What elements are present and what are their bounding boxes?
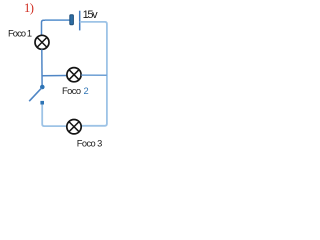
label 1) — [24, 1, 34, 15]
lamp U2 Foco 2 — [67, 68, 81, 82]
svg-text:Foco 3: Foco 3 — [77, 139, 103, 149]
svg-text:15v: 15v — [83, 9, 99, 21]
svg-text:1): 1) — [24, 1, 34, 15]
label Foco 3 — [77, 139, 103, 149]
lamp U3 Foco 3 — [67, 120, 81, 134]
label Foco 1 — [8, 29, 32, 39]
label 15v — [83, 9, 99, 21]
battery B1 short plate — [70, 15, 74, 25]
switch S1 lower contact — [40, 101, 44, 105]
svg-text:Foco: Foco — [62, 86, 81, 96]
switch S1 lever — [29, 88, 41, 101]
switch S1 junction dot — [40, 85, 45, 90]
wire left rail lamp1 to switch junction — [41, 49, 43, 85]
svg-text:2: 2 — [84, 86, 89, 96]
lamp U1 Foco 1 — [35, 35, 49, 49]
wire top-left from node A down-left corner to battery — [42, 20, 70, 35]
svg-text:Foco 1: Foco 1 — [8, 29, 32, 39]
wire from switch contact down to bottom branch — [42, 105, 66, 127]
wire from battery to right rail and down to bottom branch — [80, 22, 107, 126]
label Foco 2 — [62, 86, 89, 96]
wire middle branch left — [42, 75, 67, 77]
battery B1 long plate — [79, 11, 81, 31]
wire middle branch right — [81, 74, 107, 76]
